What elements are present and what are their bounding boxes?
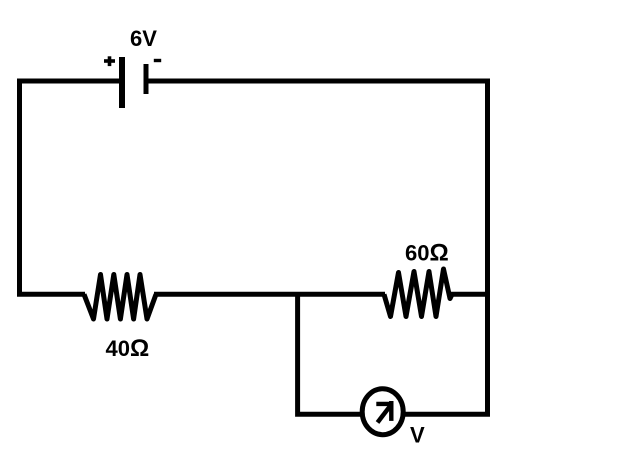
svg-text:6V: 6V	[130, 26, 157, 51]
svg-text:60Ω: 60Ω	[405, 240, 449, 267]
svg-text:40Ω: 40Ω	[106, 335, 150, 362]
svg-text:V: V	[410, 422, 425, 447]
